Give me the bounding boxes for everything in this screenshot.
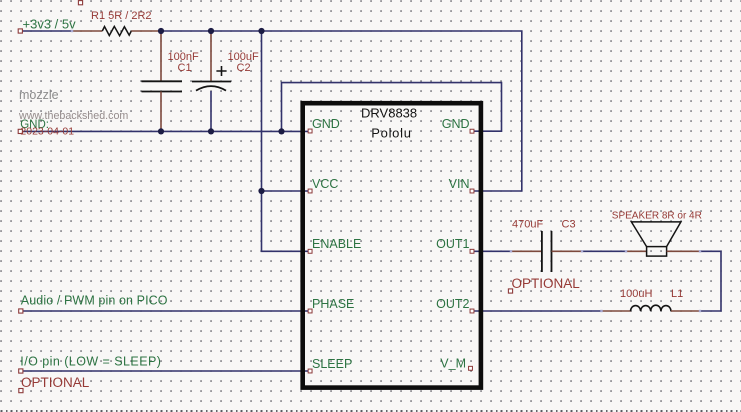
node junction C2 top bbox=[208, 28, 214, 34]
svg-text:SPEAKER 8R or 4R: SPEAKER 8R or 4R bbox=[612, 210, 702, 221]
svg-text:100uH: 100uH bbox=[620, 288, 652, 300]
terminal +3v3 bbox=[18, 29, 22, 33]
wire joint marker at L1 right lead bbox=[699, 310, 701, 312]
wire joint marker at speaker right lead bbox=[699, 250, 701, 252]
svg-text:I/O pin (LOW = SLEEP): I/O pin (LOW = SLEEP) bbox=[20, 355, 161, 369]
wire joint marker at C3 left lead bbox=[510, 250, 512, 252]
wire speaker to right riser bbox=[700, 251, 721, 311]
svg-text:OPTIONAL: OPTIONAL bbox=[21, 375, 90, 390]
inductor L1 right lead bbox=[671, 310, 700, 312]
svg-text:DRV8838: DRV8838 bbox=[361, 106, 417, 121]
wire top net to VIN riser bbox=[161, 31, 522, 191]
wire PHASE bbox=[22, 310, 309, 312]
speaker right lead bbox=[667, 250, 700, 252]
wire +3v3 terminal to R1 bbox=[21, 30, 73, 32]
pin pad ENABLE bbox=[308, 249, 312, 253]
svg-text:C3: C3 bbox=[562, 218, 576, 230]
pin pad V_M bbox=[469, 366, 473, 370]
svg-text:L1: L1 bbox=[671, 288, 683, 300]
wire R1 left lead bbox=[72, 30, 102, 32]
terminal OPTIONAL left bbox=[19, 389, 23, 393]
svg-text:OUT2: OUT2 bbox=[436, 297, 469, 311]
svg-text:V_M: V_M bbox=[440, 357, 466, 371]
svg-text:R1 5R / 2R2: R1 5R / 2R2 bbox=[91, 10, 152, 22]
svg-text:VCC: VCC bbox=[312, 177, 338, 191]
svg-text:Audio / PWM pin on PICO: Audio / PWM pin on PICO bbox=[21, 294, 168, 308]
node junction GND loop bbox=[278, 128, 284, 134]
wire riser to VCC and ENABLE bbox=[262, 31, 310, 251]
svg-text:C1: C1 bbox=[178, 62, 192, 74]
capacitor C3 plates bbox=[542, 231, 552, 272]
pin pad VCC bbox=[308, 189, 312, 193]
svg-text:OPTIONAL: OPTIONAL bbox=[512, 276, 581, 291]
svg-text:+3v3 / 5v: +3v3 / 5v bbox=[23, 17, 77, 32]
capacitor C2 curved plate bbox=[196, 86, 226, 91]
svg-text:mozzle: mozzle bbox=[19, 88, 59, 102]
capacitor C1 plates bbox=[142, 81, 183, 91]
wire C3 to speaker bbox=[582, 250, 626, 252]
node junction C2 bottom bbox=[208, 128, 214, 134]
capacitor C2 plus sign bbox=[216, 66, 226, 76]
terminal GND bbox=[18, 129, 22, 133]
inductor L1 bbox=[631, 305, 672, 311]
capacitor C3 left lead bbox=[511, 250, 542, 252]
svg-text:OUT1: OUT1 bbox=[436, 237, 469, 251]
wire OUT2 bbox=[474, 310, 602, 312]
wire joint marker at L1 left lead bbox=[600, 310, 602, 312]
pin pad OUT1 bbox=[470, 249, 474, 253]
terminal SLEEP bbox=[19, 369, 23, 373]
capacitor C2 top plate bbox=[192, 81, 231, 83]
svg-text:SLEEP: SLEEP bbox=[312, 357, 352, 371]
dense dot row bottom bbox=[1, 410, 741, 412]
pin pad GND right bbox=[470, 129, 474, 133]
capacitor C2 lead bottom bbox=[210, 91, 212, 131]
terminal top bbox=[78, 1, 82, 5]
node junction riser top bbox=[258, 28, 264, 34]
resistor R1 bbox=[102, 26, 131, 35]
node junction VCC bbox=[258, 188, 264, 194]
capacitor C3 right lead bbox=[552, 250, 583, 252]
wire joint marker at R1 lead bbox=[71, 30, 73, 32]
capacitor C1 lead top bbox=[160, 32, 162, 81]
node junction C1 bottom bbox=[158, 128, 164, 134]
svg-text:PHASE: PHASE bbox=[312, 297, 354, 311]
wire GND bus bbox=[21, 130, 310, 132]
node junction R1-C1 bbox=[158, 28, 164, 34]
terminal PHASE bbox=[19, 309, 23, 313]
capacitor C2 lead top bbox=[210, 32, 212, 81]
terminal OPTIONAL right bbox=[508, 289, 512, 293]
svg-text:GND: GND bbox=[442, 117, 470, 131]
capacitor C1 lead bottom bbox=[160, 92, 162, 132]
wire R1 right lead bbox=[131, 30, 160, 32]
pin pad VIN bbox=[470, 189, 474, 193]
wire GND loop to right GND pin bbox=[282, 83, 502, 132]
inductor L1 left lead bbox=[602, 310, 631, 312]
wire VCC bbox=[262, 190, 310, 192]
svg-text:GND: GND bbox=[312, 117, 340, 131]
speaker SP1 bbox=[631, 222, 681, 256]
pin pad SLEEP bbox=[308, 369, 312, 373]
svg-text:C2: C2 bbox=[237, 62, 251, 74]
pin pad OUT2 bbox=[470, 309, 474, 313]
svg-text:2023-04-01: 2023-04-01 bbox=[20, 126, 74, 138]
speaker left lead bbox=[626, 250, 647, 252]
wire SLEEP bbox=[22, 370, 309, 372]
pin pad PHASE bbox=[308, 309, 312, 313]
pin pad GND left bbox=[308, 129, 312, 133]
IC U1 DRV8838 box bbox=[303, 103, 481, 387]
svg-text:VIN: VIN bbox=[449, 177, 470, 191]
svg-text:Pololu: Pololu bbox=[371, 126, 411, 141]
wire joint marker at C3 right lead bbox=[581, 250, 583, 252]
wire joint marker at speaker left lead bbox=[625, 250, 627, 252]
svg-text:470uF: 470uF bbox=[512, 218, 543, 230]
svg-text:ENABLE: ENABLE bbox=[312, 237, 361, 251]
wire OUT1 to C3 bbox=[474, 250, 511, 252]
